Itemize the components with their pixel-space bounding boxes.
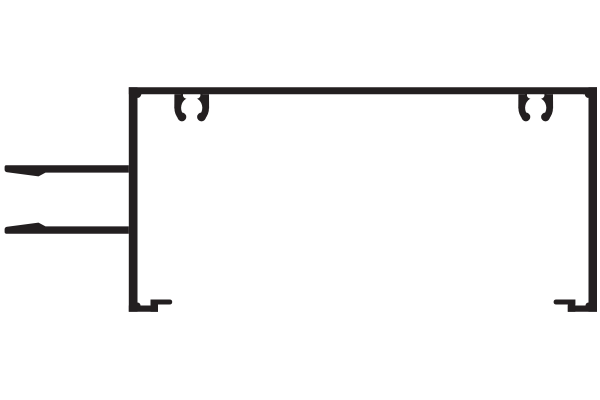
boss2 bulb left (522, 113, 531, 122)
bottom-right inner fillet (586, 303, 591, 308)
screw boss 2 (right) (518, 94, 553, 121)
boss2 left stem (518, 94, 527, 108)
boss1 top slot (white) (183, 94, 200, 99)
bottom-left riser (151, 300, 159, 312)
bottom-right riser (568, 300, 576, 312)
boss1 C-ring (178, 94, 205, 117)
boss2 C-ring (522, 94, 549, 117)
left wall (129, 87, 138, 312)
bottom-left flange (151, 300, 173, 305)
inner fillet top-right (583, 92, 590, 98)
boss2 inner bore (white) (525, 97, 546, 118)
boss1 bulb right (197, 113, 206, 122)
boss2 bulb right (541, 113, 550, 122)
screw boss 1 (left) (174, 94, 209, 121)
bottom-left inner fillet (136, 303, 141, 308)
boss2 right stem (544, 94, 553, 108)
boss1 bulb left (178, 113, 187, 122)
upper glazing fin (5, 165, 129, 176)
boss1 right stem (200, 94, 209, 108)
top wall (129, 87, 597, 94)
right wall (589, 87, 598, 312)
bottom-right foot (568, 306, 597, 312)
boss1 inner bore (white) (181, 97, 202, 118)
bottom-left foot (129, 306, 158, 312)
inner fillet top-left (136, 92, 142, 98)
bottom-right flange (554, 300, 576, 305)
lower glazing fin (5, 223, 129, 234)
boss2 top slot (white) (527, 94, 544, 99)
boss1 left stem (174, 94, 183, 108)
